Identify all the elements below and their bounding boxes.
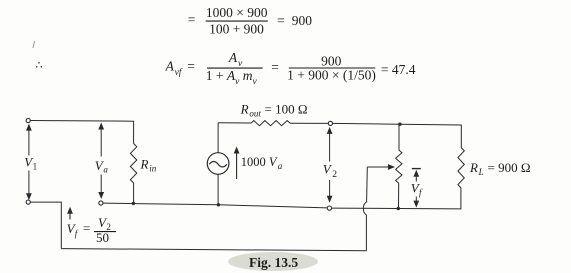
svg-text:1 + 900 × (1/50): 1 + 900 × (1/50) <box>287 68 376 83</box>
terminal: output top <box>328 121 332 125</box>
caption highlight ellipse <box>228 252 318 271</box>
svg-text:1000 × 900: 1000 × 900 <box>206 5 268 20</box>
voltage arrow Va <box>98 123 104 200</box>
svg-text:A: A <box>228 50 238 65</box>
svg-text:= 900 Ω: = 900 Ω <box>488 160 531 175</box>
dimension arrow Vf <box>412 169 421 208</box>
svg-text:in: in <box>149 164 157 174</box>
svg-text:= 100 Ω: = 100 Ω <box>265 101 308 116</box>
svg-text:f: f <box>75 228 79 238</box>
stray pen mark <box>33 41 35 48</box>
wire: input port top <box>30 121 133 144</box>
wire: source top lead <box>217 123 219 153</box>
svg-text:Fig. 13.5: Fig. 13.5 <box>249 255 298 270</box>
svg-text:900: 900 <box>292 13 313 28</box>
svg-text:50: 50 <box>96 230 109 245</box>
svg-text:a: a <box>103 165 108 175</box>
wire: bottom bus input side <box>103 203 327 208</box>
svg-text:R: R <box>240 101 249 116</box>
svg-text:900: 900 <box>321 54 342 69</box>
source U1: controlled source 1000 Va <box>207 153 229 175</box>
wire: feedback riser with hop over bottom bus <box>363 167 367 251</box>
svg-text:A: A <box>165 59 175 74</box>
equation line 1: = 1000x900/100+900 = 900 <box>188 5 313 37</box>
arrow: Vf label direction <box>67 207 73 220</box>
wire: feedback bottom bus <box>61 249 366 251</box>
svg-text:=: = <box>188 12 196 27</box>
junction: potentiometer top <box>398 123 401 126</box>
terminal: Va bottom <box>99 201 103 205</box>
svg-text:R: R <box>140 157 149 172</box>
wire: output top bus <box>333 123 462 147</box>
voltage arrow V2 <box>327 127 333 203</box>
wire: output bottom bus <box>332 188 461 209</box>
potentiometer: feedback divider <box>396 124 402 208</box>
voltage arrow V1 <box>26 124 32 201</box>
arrow: source polarity <box>234 147 240 180</box>
svg-text:vf: vf <box>175 67 183 78</box>
wire: Rout to output terminal <box>290 122 328 124</box>
junction: potentiometer bottom <box>397 207 400 210</box>
wire: source bottom lead <box>217 174 219 205</box>
svg-text:out: out <box>249 108 261 118</box>
equation line 2: Avf = Av/(1+Av mv) = 900/(1+900x(1/50)) = 47.4 <box>165 50 416 87</box>
wiper arrow <box>367 164 395 170</box>
svg-text:=: = <box>187 59 195 74</box>
terminal: input bottom-left <box>26 200 30 204</box>
resistor Rout <box>251 121 290 126</box>
svg-text:2: 2 <box>332 170 337 180</box>
resistor Rin <box>130 144 136 184</box>
wire: source to Rout <box>218 122 251 124</box>
svg-text:=: = <box>83 221 90 236</box>
junction: Rin bottom <box>132 202 135 205</box>
svg-text:f: f <box>419 188 423 198</box>
terminal: output bottom <box>327 206 331 210</box>
svg-text:∴: ∴ <box>36 60 43 72</box>
label Vf = V2/50 <box>67 215 116 245</box>
svg-text:=: = <box>277 13 285 28</box>
svg-text:1: 1 <box>33 162 38 172</box>
svg-text:100 + 900: 100 + 900 <box>209 21 264 36</box>
svg-text:= 47.4: = 47.4 <box>381 62 416 77</box>
svg-text:=: = <box>271 60 279 75</box>
terminal: input top-left <box>26 118 30 122</box>
wire: feedback series path from V1 bottom <box>30 202 61 249</box>
svg-text:a: a <box>278 161 283 171</box>
svg-text:L: L <box>478 167 484 177</box>
svg-text:R: R <box>469 160 478 175</box>
svg-text:1000 V: 1000 V <box>241 155 278 169</box>
svg-text:1 + Av mv: 1 + Av mv <box>206 68 258 87</box>
resistor RL <box>458 148 464 189</box>
junction: source bottom <box>217 203 220 206</box>
